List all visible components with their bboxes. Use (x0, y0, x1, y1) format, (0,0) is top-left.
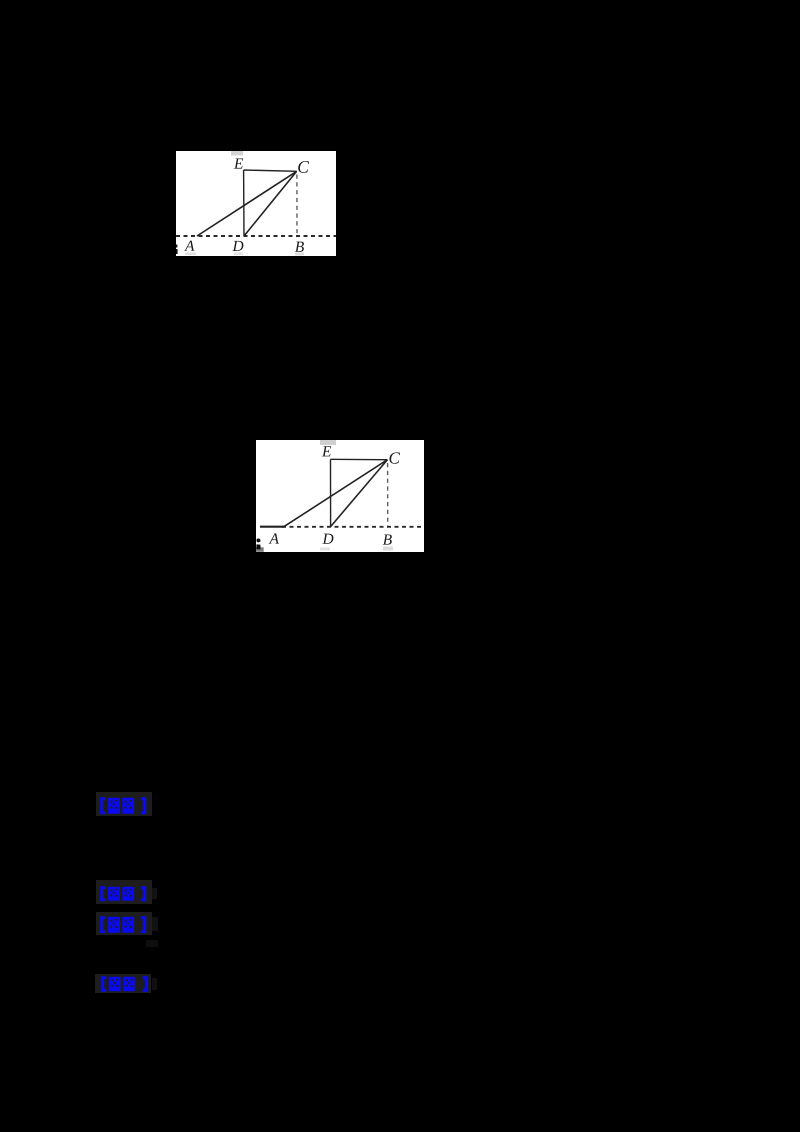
smudge below D (320, 548, 330, 551)
baseline dashed line through A D B (176, 235, 336, 237)
line A to C (284, 460, 387, 527)
tiny cut glyph bottom-left (256, 547, 264, 552)
smudge above E (320, 440, 336, 445)
smudge below D (234, 253, 243, 256)
line A to C (197, 171, 297, 236)
figure 1 white panel (176, 151, 336, 256)
label C (389, 452, 400, 463)
line E to D (vertical) (330, 459, 332, 526)
label C (298, 161, 309, 173)
label A (184, 241, 194, 251)
line E to C (horizontal) (331, 458, 388, 460)
dashed vertical C to B (387, 463, 389, 526)
dashed vertical C to B (296, 175, 298, 236)
label B (295, 242, 304, 252)
smudge above E (231, 151, 243, 156)
blue tag 4 (95, 974, 151, 993)
label A (269, 533, 279, 543)
baseline solid segment left of A (260, 526, 285, 528)
baseline dashed line through D B (282, 526, 424, 528)
label D (232, 241, 243, 251)
blue tag 3 (96, 912, 152, 935)
smudge below B (383, 547, 393, 551)
line D to C (331, 460, 388, 527)
smudge below A (185, 253, 196, 256)
smudge below B (295, 253, 304, 256)
blue tag 2 (96, 880, 152, 904)
figure 2 white panel (256, 440, 424, 552)
line D to C (244, 171, 297, 236)
tiny cut mark bottom-left (176, 245, 177, 248)
label B (383, 534, 392, 544)
label E (322, 446, 331, 456)
blue tag 1 (96, 792, 152, 816)
line E to C (horizontal) (244, 170, 297, 171)
label E (234, 158, 243, 168)
label D (322, 534, 333, 544)
line E to D (vertical) (243, 170, 245, 236)
faint jpeg remnants right of tags (152, 888, 157, 899)
